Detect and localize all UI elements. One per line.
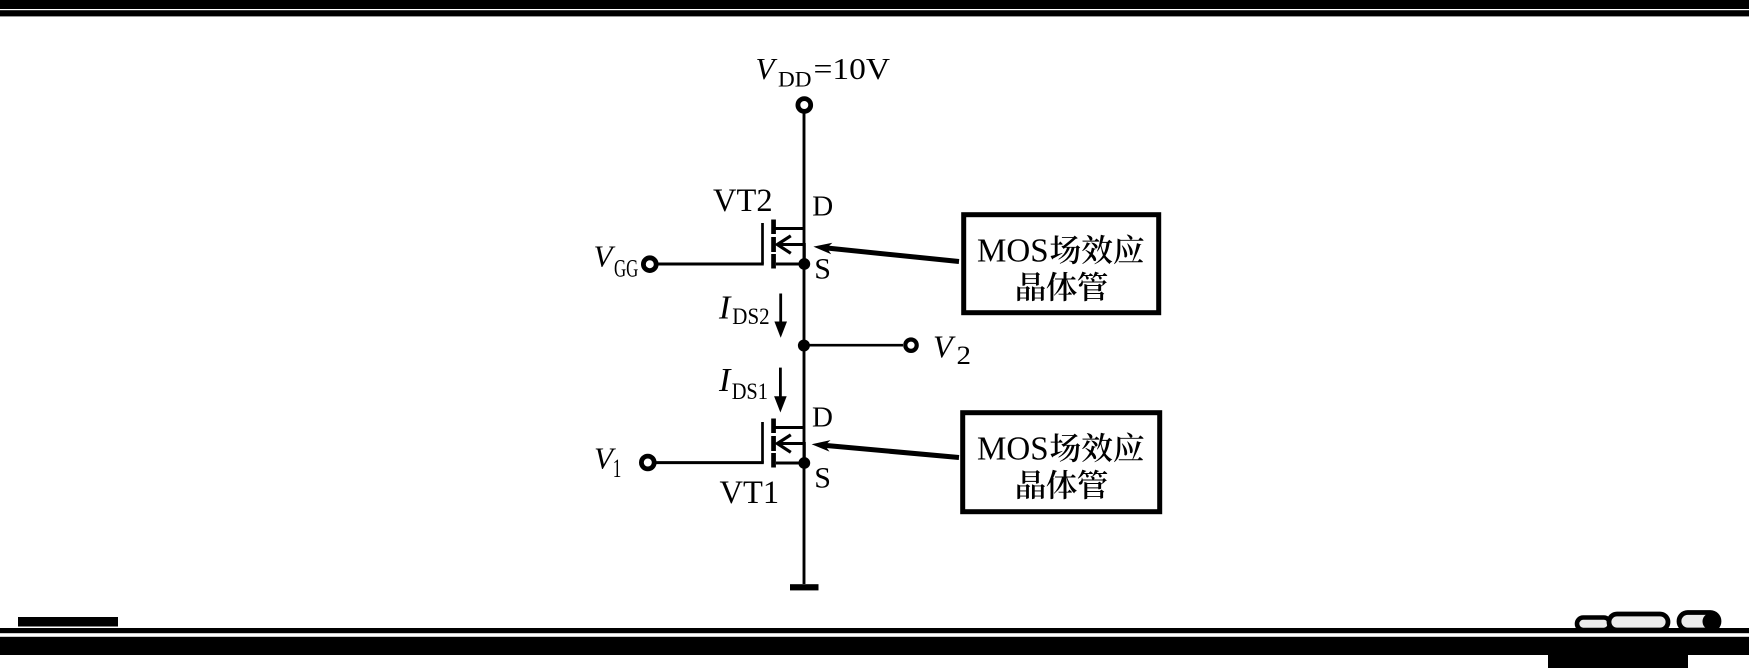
svg-text:GG: GG [614, 254, 638, 283]
svg-text:I: I [718, 362, 732, 399]
svg-text:DS1: DS1 [732, 379, 768, 404]
svg-text:D: D [812, 191, 833, 223]
svg-text:DS2: DS2 [732, 304, 769, 329]
svg-text:VT1: VT1 [720, 475, 780, 511]
svg-text:S: S [814, 462, 831, 495]
svg-text:MOS: MOS [977, 431, 1049, 468]
svg-text:I: I [718, 290, 732, 327]
svg-text:D: D [812, 402, 833, 434]
svg-text:V: V [594, 239, 616, 274]
svg-text:S: S [814, 253, 831, 286]
svg-text:MOS: MOS [977, 233, 1049, 270]
svg-text:1: 1 [613, 454, 622, 483]
svg-text:VT2: VT2 [713, 183, 773, 219]
svg-text:DD: DD [778, 67, 812, 92]
svg-text:V: V [933, 329, 956, 365]
svg-text:=10V: =10V [814, 51, 891, 86]
svg-text:2: 2 [957, 341, 972, 370]
svg-text:V: V [756, 51, 778, 86]
